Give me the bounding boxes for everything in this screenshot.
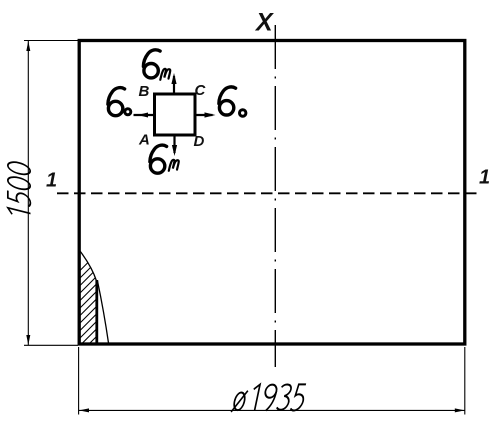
dimension 1500: dimension line [27, 41, 29, 345]
svg-text:1: 1 [46, 170, 57, 192]
text 1500 (rotated) [8, 160, 31, 219]
arrow sigma-0 left [134, 114, 155, 116]
dimension 1500: extension line top [24, 40, 78, 42]
svg-text:A: A [138, 132, 150, 149]
arrow up [26, 41, 30, 51]
svg-text:1: 1 [479, 167, 489, 189]
arrow sigma-m up [173, 76, 175, 94]
arrow down [26, 335, 30, 345]
svg-text:D: D [194, 133, 205, 150]
weld outer thin curve [98, 281, 109, 343]
dimension 1935: extension line left [78, 347, 80, 415]
section line 1-1 (dashed) [57, 192, 480, 194]
arrow sigma-m down [173, 135, 175, 153]
text diameter 1935 [231, 384, 306, 412]
weld inner thick edge [95, 280, 98, 344]
stress element square [155, 94, 196, 135]
sigma-m label bottom: hand-drawn sigma 6 [150, 145, 167, 173]
arrow right [455, 408, 465, 412]
dimension 1935: extension line right [464, 347, 466, 415]
svg-text:C: C [195, 82, 207, 99]
arrow left [79, 408, 89, 412]
svg-text:X: X [254, 9, 274, 37]
dimension 1500: extension line bottom [24, 344, 78, 346]
dimension 1935: dimension line [79, 409, 465, 411]
svg-text:B: B [139, 83, 150, 100]
sigma-0 label left: hand-drawn sigma 6 [108, 88, 125, 116]
weld seam boundary curve [80, 251, 97, 281]
weld hatching [3, 248, 201, 348]
sigma-m label top: hand-drawn sigma 6 [143, 50, 160, 78]
arrow sigma-0 right [196, 114, 213, 116]
axis X center line (dash-dot) [274, 25, 276, 367]
shell outline (main rectangle) [79, 41, 465, 345]
sigma-0 label right: hand-drawn sigma 6 [219, 87, 236, 115]
